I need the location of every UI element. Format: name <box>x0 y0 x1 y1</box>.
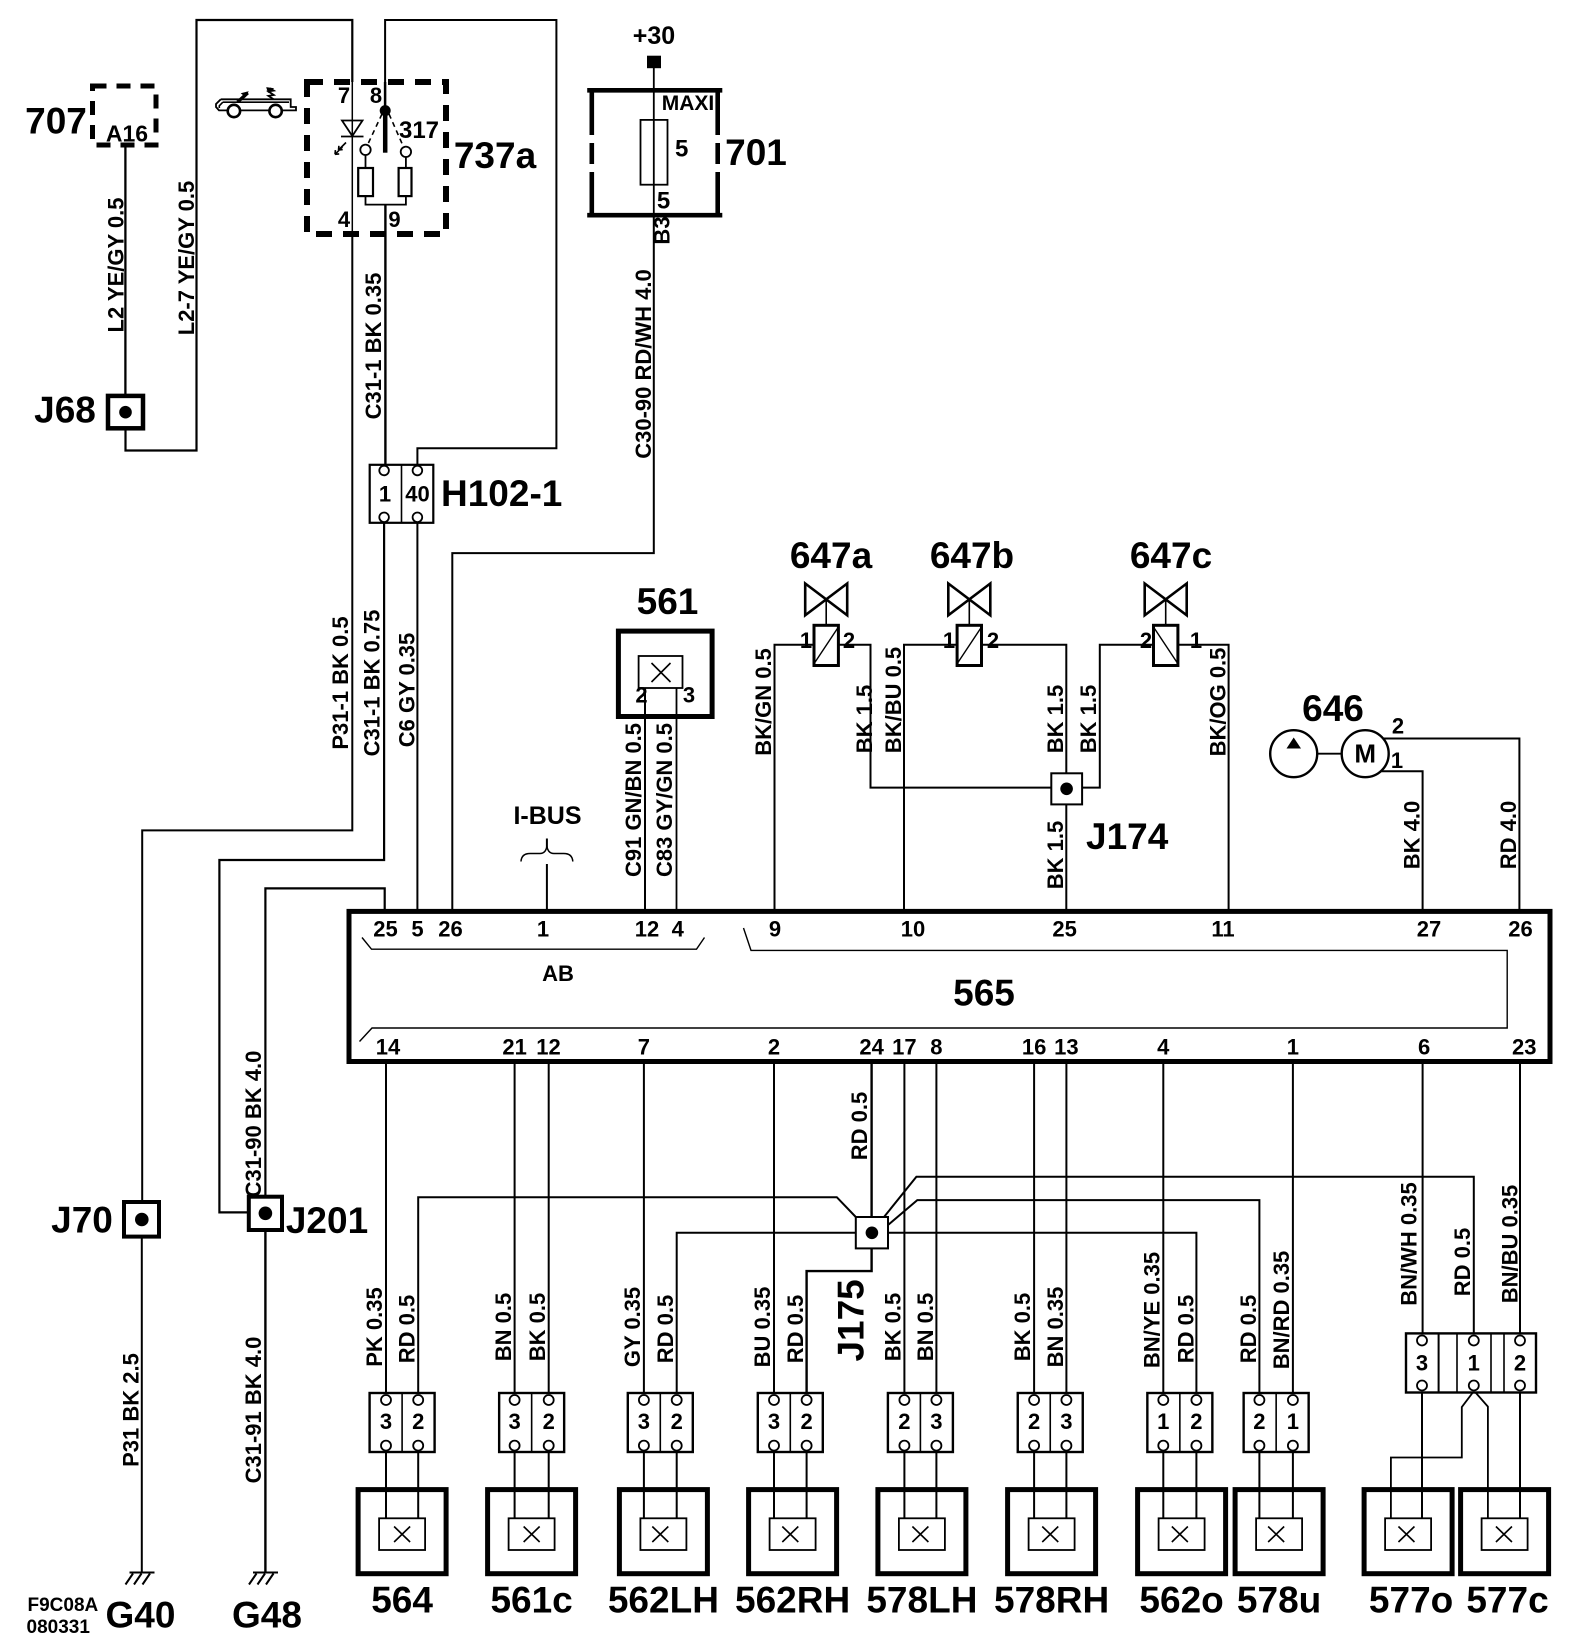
svg-text:BN 0.5: BN 0.5 <box>913 1293 938 1361</box>
wire BK/OG 0.5 (647c pin1 to 565 pin11) <box>1178 645 1229 912</box>
lamp 564 <box>358 1490 446 1574</box>
wire 577conn pin2 to lamp 577c <box>1519 1393 1521 1519</box>
wire 562RH pin2 to lamp <box>806 1452 808 1518</box>
svg-text:3: 3 <box>768 1409 780 1434</box>
svg-text:BU 0.35: BU 0.35 <box>750 1287 775 1368</box>
wire RD (J175 to 562o pin2) <box>888 1233 1196 1393</box>
wire BN 0.5 (565 pin21 to 561c pin3) <box>514 1062 516 1394</box>
lamp 577c <box>1461 1490 1549 1574</box>
svg-text:577c: 577c <box>1466 1580 1548 1621</box>
svg-text:L2 YE/GY 0.5: L2 YE/GY 0.5 <box>104 198 129 333</box>
svg-text:MAXI: MAXI <box>662 92 715 115</box>
svg-text:H102-1: H102-1 <box>441 473 562 514</box>
junction J201 <box>249 1197 282 1230</box>
wire RD (J175 to 562LH pin2) <box>677 1233 856 1393</box>
561c connector <box>499 1393 564 1452</box>
svg-text:BK 1.5: BK 1.5 <box>1043 685 1068 753</box>
svg-text:9: 9 <box>388 207 400 232</box>
wire 561c pin3 to lamp <box>514 1452 516 1518</box>
svg-text:317: 317 <box>399 117 439 144</box>
switch 317 lever <box>383 113 388 153</box>
svg-text:3: 3 <box>1060 1409 1072 1434</box>
wire RD (J175 to 578u pin2) <box>888 1200 1259 1393</box>
wire RD (J175 to 564 pin2) <box>418 1197 856 1393</box>
svg-text:24: 24 <box>859 1035 884 1060</box>
wire BN/RD 0.35 (565 pin1 to 578u pin1) <box>1292 1062 1294 1394</box>
svg-text:RD 0.5: RD 0.5 <box>653 1295 678 1363</box>
svg-text:BN 0.5: BN 0.5 <box>491 1293 516 1361</box>
terminal +30 square <box>647 56 661 68</box>
svg-text:2: 2 <box>768 1035 780 1060</box>
svg-text:AB: AB <box>542 961 574 986</box>
svg-text:RD 0.5: RD 0.5 <box>395 1295 420 1363</box>
wire BK 4.0 (646 pin1 to 565 pin27) <box>1381 771 1423 911</box>
svg-text:562RH: 562RH <box>735 1580 850 1621</box>
wire C31-1 BK 0.75 (H102-1 pin1 to J201) <box>219 523 384 1213</box>
578LH connector <box>888 1393 953 1452</box>
svg-text:PK 0.35: PK 0.35 <box>362 1287 387 1367</box>
lamp 562o <box>1138 1490 1226 1574</box>
svg-text:16: 16 <box>1022 1035 1046 1060</box>
wire C31-1 BK 0.35 (737a pin9 to H102-1 pin1) <box>384 205 386 466</box>
svg-text:BK/GN 0.5: BK/GN 0.5 <box>751 648 776 756</box>
wire +30 to 701 <box>653 68 655 90</box>
svg-text:BK 0.5: BK 0.5 <box>881 1293 906 1361</box>
connector 707 <box>93 86 157 145</box>
junction J175 <box>856 1217 888 1248</box>
wire 562o pin2 to lamp <box>1195 1452 1197 1518</box>
wire BN 0.5 (565 pin8 to 578LH pin3) <box>935 1062 937 1394</box>
svg-text:2: 2 <box>671 1409 683 1434</box>
svg-text:2: 2 <box>1140 628 1152 653</box>
svg-text:12: 12 <box>635 917 659 942</box>
wire BK 1.5 (J174 to 565 pin25) <box>1065 804 1067 911</box>
svg-text:2: 2 <box>1392 714 1404 739</box>
svg-text:2: 2 <box>898 1409 910 1434</box>
switch unit 737a (dashed box) <box>307 82 446 234</box>
svg-text:BK 1.5: BK 1.5 <box>1043 821 1068 889</box>
svg-text:1: 1 <box>537 917 549 942</box>
svg-text:646: 646 <box>1302 688 1364 729</box>
svg-text:BN/YE 0.35: BN/YE 0.35 <box>1140 1252 1165 1368</box>
svg-text:4: 4 <box>1157 1035 1170 1060</box>
svg-text:578RH: 578RH <box>994 1580 1109 1621</box>
wire BK/BU 0.5 (647b pin1 to 565 pin10) <box>904 645 957 912</box>
lamp 561 bulb <box>639 656 683 688</box>
wire 562LH pin2 to lamp <box>676 1452 678 1518</box>
wire P31 BK 2.5 (J70 to G40) <box>141 1237 143 1573</box>
pump 646 <box>1270 730 1317 777</box>
svg-text:564: 564 <box>371 1580 433 1621</box>
wire 564 pin2 to lamp <box>417 1452 419 1518</box>
svg-text:G48: G48 <box>232 1595 302 1636</box>
wire 737a pin8 stub <box>384 82 387 107</box>
svg-text:RD 0.5: RD 0.5 <box>1174 1295 1199 1363</box>
wire 578u pin2 to lamp <box>1258 1452 1260 1518</box>
svg-text:14: 14 <box>376 1035 401 1060</box>
svg-text:25: 25 <box>1052 917 1076 942</box>
svg-text:11: 11 <box>1211 917 1234 942</box>
svg-text:080331: 080331 <box>27 1617 91 1638</box>
svg-text:BK 0.5: BK 0.5 <box>1010 1293 1035 1361</box>
wire BN/BU 0.35 (565 pin23 to 577conn pin2) <box>1519 1062 1521 1334</box>
wire RD 0.5 (565 pin24 to J175) <box>870 1062 872 1218</box>
svg-text:1: 1 <box>1391 748 1403 773</box>
I-BUS dashed stub <box>546 839 548 850</box>
svg-text:565: 565 <box>953 973 1015 1014</box>
wire C30-90 RD/WH 4.0 (701 to 565 pin26) <box>452 216 654 912</box>
svg-text:8: 8 <box>370 83 382 108</box>
svg-text:3: 3 <box>1416 1351 1428 1376</box>
junction J68 <box>108 396 143 428</box>
motor 646 <box>1342 730 1389 777</box>
wire 578RH pin3 to lamp <box>1065 1452 1067 1518</box>
wire 564 pin3 to lamp <box>385 1452 387 1518</box>
svg-text:C91 GN/BN 0.5: C91 GN/BN 0.5 <box>621 723 646 877</box>
wire BK 1.5 (647a pin2 to J174) <box>838 645 1051 788</box>
svg-text:RD 0.5: RD 0.5 <box>1236 1295 1261 1363</box>
svg-text:6: 6 <box>1418 1035 1430 1060</box>
svg-text:40: 40 <box>405 482 429 507</box>
valve 647c <box>1145 584 1187 616</box>
valve 647a <box>805 584 847 616</box>
ground G48 <box>249 1573 278 1585</box>
578u connector <box>1244 1393 1309 1452</box>
svg-text:G40: G40 <box>106 1595 176 1636</box>
svg-text:4: 4 <box>672 917 685 942</box>
svg-text:1: 1 <box>1190 628 1202 653</box>
svg-text:L2-7 YE/GY 0.5: L2-7 YE/GY 0.5 <box>174 181 199 336</box>
wire 561c pin2 to lamp <box>548 1452 550 1518</box>
svg-text:12: 12 <box>536 1035 560 1060</box>
svg-text:J175: J175 <box>830 1279 871 1361</box>
I-BUS brace <box>521 847 573 862</box>
lamp 578LH <box>878 1490 966 1574</box>
svg-text:13: 13 <box>1054 1035 1078 1060</box>
wire L2-7 YE/GY 0.5 (J68 to 737a pin 7) <box>126 20 353 451</box>
svg-text:C30-90 RD/WH 4.0: C30-90 RD/WH 4.0 <box>631 269 656 459</box>
wire 578LH pin3 to lamp <box>935 1452 937 1518</box>
valve 647b <box>948 584 990 616</box>
svg-text:C31-1 BK 0.35: C31-1 BK 0.35 <box>361 273 386 420</box>
svg-text:27: 27 <box>1417 917 1441 942</box>
wire GY 0.35 (565 pin7 to 562LH pin3) <box>643 1062 645 1394</box>
fuse element 701 <box>641 120 668 185</box>
svg-text:2: 2 <box>1190 1409 1202 1434</box>
wire BK 1.5 (647b pin2 to J174) <box>982 645 1067 774</box>
wire BK 0.5 (565 pin17 to 578LH pin2) <box>903 1062 905 1394</box>
578RH connector <box>1018 1393 1083 1452</box>
wire 562RH pin3 to lamp <box>773 1452 775 1518</box>
wire C91 GN/BN 0.5 (561 pin2 to 565 pin12) <box>644 688 646 911</box>
switch contact circle right <box>401 147 411 157</box>
svg-text:21: 21 <box>502 1035 526 1060</box>
565 inner bracket main <box>360 928 1508 1042</box>
wire contact-left to resistor R1 <box>365 155 367 168</box>
wire 577conn pin3 to lamp 577o <box>1421 1393 1423 1519</box>
svg-text:+30: +30 <box>633 22 675 50</box>
svg-text:578LH: 578LH <box>866 1580 977 1621</box>
svg-text:GY 0.35: GY 0.35 <box>620 1287 645 1367</box>
svg-text:BK 1.5: BK 1.5 <box>1076 685 1101 753</box>
wire pump-motor link <box>1317 753 1342 755</box>
wire BK 0.5 (565 pin12 to 561c pin2) <box>548 1062 550 1394</box>
svg-text:BK 1.5: BK 1.5 <box>852 685 877 753</box>
LED (warning lamp diode) <box>335 121 364 155</box>
svg-text:1: 1 <box>1287 1035 1299 1060</box>
junction J174 <box>1051 773 1082 804</box>
svg-text:J201: J201 <box>286 1200 368 1241</box>
svg-text:I-BUS: I-BUS <box>513 802 581 830</box>
svg-text:2: 2 <box>987 628 999 653</box>
wire 578RH pin2 to lamp <box>1033 1452 1035 1518</box>
svg-text:701: 701 <box>725 132 787 173</box>
wire C6 GY 0.35 (H102-1 pin40 to 565 pin5) <box>416 523 418 912</box>
wire C31-90 BK 4.0 (565 pin25 to J201) <box>265 888 384 1196</box>
564 connector <box>370 1393 435 1452</box>
svg-text:M: M <box>1354 739 1376 769</box>
wire BN/YE 0.35 (565 pin4 to 562o pin1) <box>1162 1062 1164 1394</box>
svg-text:5: 5 <box>657 188 670 215</box>
svg-text:26: 26 <box>438 917 462 942</box>
wire through fuse <box>653 90 655 216</box>
svg-text:23: 23 <box>1512 1035 1536 1060</box>
connector H102-1 <box>370 465 434 523</box>
577 connector <box>1406 1333 1536 1392</box>
svg-text:1: 1 <box>1157 1409 1169 1434</box>
svg-text:737a: 737a <box>454 135 537 176</box>
svg-text:3: 3 <box>508 1409 520 1434</box>
junction J70 <box>124 1202 159 1237</box>
svg-text:2: 2 <box>1028 1409 1040 1434</box>
svg-text:562o: 562o <box>1139 1580 1223 1621</box>
wire BK/GN 0.5 (647a pin1 to 565 pin9) <box>775 645 815 912</box>
svg-text:5: 5 <box>411 917 423 942</box>
ECU 565 (box) <box>349 911 1550 1061</box>
switch 317 dashed contacts <box>367 114 404 148</box>
svg-text:BK 4.0: BK 4.0 <box>1400 801 1425 869</box>
wire 562o pin1 to lamp <box>1162 1452 1164 1518</box>
svg-text:3: 3 <box>380 1409 392 1434</box>
svg-text:C6 GY 0.35: C6 GY 0.35 <box>395 633 420 748</box>
wire BU 0.35 (565 pin2 to 562RH pin3) <box>773 1062 775 1394</box>
svg-text:561: 561 <box>637 581 699 622</box>
ground G40 <box>126 1573 155 1585</box>
resistor R1 (737a left) <box>358 168 373 196</box>
svg-text:647c: 647c <box>1130 535 1212 576</box>
565 inner bracket AB <box>362 938 705 950</box>
wire 577conn pin1 fork to lamp 577o <box>1391 1393 1473 1519</box>
svg-text:25: 25 <box>373 917 397 942</box>
svg-text:1: 1 <box>800 628 812 653</box>
svg-text:647b: 647b <box>930 535 1014 576</box>
lamp 577o <box>1364 1490 1452 1574</box>
car icon (convertible) <box>216 88 296 117</box>
svg-text:C31-90 BK 4.0: C31-90 BK 4.0 <box>241 1051 266 1198</box>
wire L2 YE/GY 0.5 (707 A16 to J68) <box>124 145 126 396</box>
svg-text:707: 707 <box>25 101 87 142</box>
switch 317 pivot dot <box>380 105 391 116</box>
wire 578u pin1 to lamp <box>1292 1452 1294 1518</box>
svg-text:562LH: 562LH <box>608 1580 719 1621</box>
lamp 578RH <box>1008 1490 1096 1574</box>
fuse holder 701 (box) <box>587 88 722 218</box>
lamp 561c <box>488 1490 576 1574</box>
wire BK 0.5 (565 pin16 to 578RH pin2) <box>1033 1062 1035 1394</box>
svg-text:1: 1 <box>943 628 955 653</box>
svg-text:5: 5 <box>675 136 688 163</box>
wire 737a pin7 to pin4 (LED branch) <box>351 82 353 234</box>
wire RD 0.5 (J175 to 577 connector pin1) <box>884 1177 1474 1334</box>
svg-text:3: 3 <box>930 1409 942 1434</box>
svg-text:P31-1 BK 0.5: P31-1 BK 0.5 <box>328 616 353 749</box>
wire C31-91 BK 4.0 (J201 to G48) <box>264 1230 266 1573</box>
svg-text:RD 0.5: RD 0.5 <box>783 1295 808 1363</box>
svg-text:J68: J68 <box>34 390 96 431</box>
wire RD 4.0 (646 pin2 to 565 pin26) <box>1383 739 1519 912</box>
switch contact circle left <box>360 145 370 155</box>
lamp 561 (box) <box>618 631 712 716</box>
svg-text:2: 2 <box>543 1409 555 1434</box>
562RH connector <box>758 1393 823 1452</box>
svg-text:2: 2 <box>843 628 855 653</box>
lamp 562RH <box>749 1490 837 1574</box>
svg-text:647a: 647a <box>790 535 873 576</box>
wire RD (J175 to 562RH pin2) <box>807 1248 872 1393</box>
svg-text:F9C08A: F9C08A <box>28 1595 99 1616</box>
svg-text:1: 1 <box>1287 1409 1299 1434</box>
svg-text:4: 4 <box>338 207 351 232</box>
svg-text:BK/BU 0.5: BK/BU 0.5 <box>881 647 906 753</box>
wire contact-right to resistor R2 <box>405 157 407 168</box>
wire C6 GY (737a pin8 to H102-1 pin40) <box>385 20 556 465</box>
wire I-BUS to 565 pin1 <box>546 864 548 911</box>
svg-text:RD 0.5: RD 0.5 <box>847 1092 872 1160</box>
svg-text:2: 2 <box>412 1409 424 1434</box>
562LH connector <box>628 1393 693 1452</box>
svg-text:17: 17 <box>892 1035 916 1060</box>
svg-text:9: 9 <box>769 917 781 942</box>
svg-text:3: 3 <box>683 683 695 708</box>
wire 562LH pin3 to lamp <box>643 1452 645 1518</box>
562o connector <box>1147 1393 1212 1452</box>
svg-text:7: 7 <box>638 1035 650 1060</box>
svg-text:BN/WH 0.35: BN/WH 0.35 <box>1397 1182 1422 1305</box>
svg-text:1: 1 <box>1468 1351 1480 1376</box>
svg-text:3: 3 <box>638 1409 650 1434</box>
svg-text:26: 26 <box>1508 917 1532 942</box>
wire 577conn pin1 fork to lamp 577c <box>1476 1393 1488 1519</box>
svg-text:BN 0.35: BN 0.35 <box>1043 1287 1068 1368</box>
wire C83 GY/GN 0.5 (561 pin3 to 565 pin4) <box>676 688 678 911</box>
wire BN 0.35 (565 pin13 to 578RH pin3) <box>1065 1062 1067 1394</box>
svg-text:J70: J70 <box>51 1200 113 1241</box>
svg-text:8: 8 <box>930 1035 942 1060</box>
svg-text:RD 4.0: RD 4.0 <box>1496 801 1521 869</box>
wire P31-1 BK 0.5 (737a pin4 to J70) <box>142 234 352 1202</box>
svg-text:7: 7 <box>338 83 350 108</box>
svg-text:A16: A16 <box>106 121 148 147</box>
svg-text:RD 0.5: RD 0.5 <box>1450 1228 1475 1296</box>
svg-text:577o: 577o <box>1369 1580 1453 1621</box>
svg-text:J174: J174 <box>1086 816 1169 857</box>
wire 578LH pin2 to lamp <box>903 1452 905 1518</box>
wire PK 0.35 (565 pin14 to 564 pin3) <box>385 1062 387 1394</box>
svg-text:2: 2 <box>800 1409 812 1434</box>
svg-text:578u: 578u <box>1237 1580 1321 1621</box>
svg-text:C31-1 BK 0.75: C31-1 BK 0.75 <box>360 610 385 757</box>
svg-text:2: 2 <box>1253 1409 1265 1434</box>
svg-text:C31-91 BK 4.0: C31-91 BK 4.0 <box>241 1337 266 1484</box>
svg-text:P31 BK 2.5: P31 BK 2.5 <box>119 1353 144 1467</box>
svg-text:BN/RD 0.35: BN/RD 0.35 <box>1269 1251 1294 1370</box>
wire resistor outputs join <box>366 196 406 205</box>
svg-text:BK/OG 0.5: BK/OG 0.5 <box>1206 648 1231 757</box>
svg-text:2: 2 <box>1514 1351 1526 1376</box>
wire BK 1.5 (647c pin2 to J174) <box>1082 645 1153 788</box>
lamp 578u <box>1235 1490 1323 1574</box>
svg-text:10: 10 <box>901 917 925 942</box>
svg-text:561c: 561c <box>490 1580 572 1621</box>
svg-text:BN/BU 0.35: BN/BU 0.35 <box>1498 1185 1523 1304</box>
wire BN/WH 0.35 (565 pin6 to 577conn pin3) <box>1422 1062 1424 1334</box>
resistor R2 (737a right) <box>399 168 412 196</box>
svg-text:1: 1 <box>379 482 391 507</box>
svg-text:BK 0.5: BK 0.5 <box>525 1293 550 1361</box>
svg-text:C83 GY/GN 0.5: C83 GY/GN 0.5 <box>652 723 677 877</box>
lamp 562LH <box>619 1490 707 1574</box>
